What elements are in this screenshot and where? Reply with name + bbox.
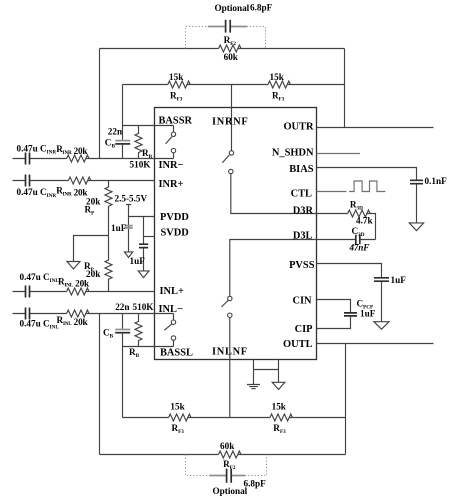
svg-text:510K: 510K [133,302,155,312]
resistor RINR 20k (INR+) [68,177,90,184]
svg-text:RF3: RF3 [170,91,183,103]
capacitor CB 22n (left ch) [115,329,130,331]
wire: left outer vertical (top wire to INR-) [99,49,101,159]
wire: INL- input line [13,313,174,315]
svg-text:INR+: INR+ [159,179,184,190]
wire: INRNF stub above IC [231,85,233,108]
wire: INR+ input line [13,180,155,182]
svg-text:1uF: 1uF [130,256,146,266]
wire: CIN/CIP loop [317,300,351,329]
wire: right vertical (top wire to OUTR) [344,49,346,128]
resistor RF3 15k (bottom right) [270,414,292,421]
svg-text:INLNF: INLNF [212,346,248,357]
capacitor CB 22n (right ch) [115,140,130,142]
resistor RF3 15k (bottom left) [169,414,191,421]
svg-text:1uF: 1uF [111,223,127,233]
svg-text:RF3: RF3 [272,91,285,103]
resistor R3D 4.7k [348,210,370,217]
svg-text:0.47u CINR: 0.47u CINR [17,187,57,199]
svg-text:47nF: 47nF [349,242,370,252]
capacitor CINL 0.47u (INL+) [26,286,30,298]
svg-text:BASSL: BASSL [160,347,193,358]
wire: vertical INL- through CB to BASSL and 15k wire [122,314,124,418]
svg-text:RINL 20k: RINL 20k [57,315,89,327]
optional capacitor 6.8pF (top, dashed) [186,27,266,49]
wire: D3R to R3D [317,214,376,240]
svg-text:1uF: 1uF [391,275,407,285]
wire: vertical from 15k wire through CB to INR- [122,85,124,159]
svg-text:D3R: D3R [293,206,314,217]
svg-text:6.8pF: 6.8pF [244,479,267,489]
ground (BIAS cap) [409,223,423,231]
resistor RINR 20k (INR-) [67,155,89,162]
ground (small, PVDD cap) [124,252,132,258]
ground (triangle, IC) [272,382,285,389]
wire: PVSS to cap [317,264,382,322]
svg-text:OUTR: OUTR [283,122,314,133]
svg-text:15k: 15k [169,72,184,82]
wire: INLNF stub below IC [229,360,231,418]
svg-text:60k: 60k [224,52,239,62]
svg-text:BIAS: BIAS [289,164,313,175]
svg-text:4.7k: 4.7k [356,216,373,226]
switch INRNF (inside IC) with wire to D3R [222,108,316,214]
svg-text:BASSR: BASSR [159,115,193,126]
wire: INR- input line [13,158,174,160]
resistor RP 20k (lower) [105,236,112,292]
svg-text:INR−: INR− [159,160,184,171]
ground (PVSS cap) [374,322,389,330]
svg-text:6.8pF: 6.8pF [250,3,273,13]
svg-text:22n: 22n [108,127,122,137]
ground (SVDD cap) [138,271,149,278]
svg-text:RF2: RF2 [224,35,237,47]
switch BASSR (inside IC) [166,126,174,159]
svg-text:20k: 20k [86,269,101,279]
optional capacitor 6.8pF (bottom, dashed) [186,455,267,476]
switch BASSL (inside IC) [164,314,173,347]
svg-text:Optional: Optional [213,486,248,496]
capacitor CINL 0.47u (INL-) [26,308,30,320]
svg-text:60k: 60k [220,441,235,451]
svg-text:INL−: INL− [159,304,183,315]
svg-text:22n: 22n [115,302,129,312]
wire: right vertical (OUTL to bottom wire) [345,344,347,455]
capacitor 1uF (SVDD bypass) [139,244,148,247]
ground (RP) [67,262,80,270]
svg-text:RINL 20k: RINL 20k [58,277,90,289]
capacitor CINR 0.47u (INR-) [26,153,30,165]
wire: OUTR output [317,127,434,129]
capacitor C3D 47nF [317,239,376,241]
svg-text:510K: 510K [130,160,152,170]
capacitor 0.1nF (BIAS) [410,180,423,183]
wire: BASSL pin wire [123,346,174,348]
svg-text:CIP: CIP [295,324,314,335]
resistor RINL 20k (INL-) [67,310,89,317]
capacitor CPCP 1uF [344,313,357,316]
svg-text:N_SHDN: N_SHDN [272,147,314,158]
capacitor CINR 0.47u (INR+) [26,175,30,187]
svg-text:RF2: RF2 [223,459,236,471]
wire: PVDD [129,216,155,218]
svg-text:RINR 20k: RINR 20k [56,144,88,156]
resistor RB 510K (right ch) [135,126,142,159]
svg-text:15k: 15k [272,402,287,412]
wire: OUTL output [317,343,434,345]
svg-text:RF3: RF3 [172,423,185,435]
svg-text:C3D: C3D [352,226,365,238]
wire: INL+ input line [13,291,155,293]
svg-text:0.47u CINL: 0.47u CINL [20,318,60,330]
svg-text:Optional: Optional [215,3,250,13]
capacitor 1uF (PVSS) [374,278,389,281]
svg-text:CB: CB [105,138,116,150]
svg-text:SVDD: SVDD [161,228,189,239]
wire: SVDD branch [143,217,145,271]
resistor RF2 60k (bottom) [219,451,241,458]
svg-text:PVDD: PVDD [160,212,189,223]
resistor RINL 20k (INL+) [67,288,89,295]
svg-text:OUTL: OUTL [283,339,313,350]
CTL square wave [349,181,385,192]
svg-text:INRNF: INRNF [212,117,248,128]
svg-text:CTL: CTL [291,188,312,199]
svg-text:2.5-5.5V: 2.5-5.5V [115,194,148,204]
svg-text:R3D: R3D [350,200,363,212]
svg-text:0.1nF: 0.1nF [425,176,448,186]
svg-text:1uF: 1uF [360,309,376,319]
resistor RB 510K (left ch) [135,314,142,347]
svg-text:D3L: D3L [293,231,313,242]
ground (bar type, IC) [247,385,260,389]
wire: bottom feedback wire (OUTL node to INL- node) [100,454,346,456]
svg-text:CB: CB [103,327,114,339]
svg-text:RF3: RF3 [273,423,286,435]
svg-text:0.47u CINL: 0.47u CINL [20,272,60,284]
resistor RF3 15k (top left) [168,81,190,88]
switch INLNF (inside IC) with wire to D3L [221,240,316,360]
capacitor 1uF (PVDD bypass, gray) [125,226,133,228]
wire: top feedback wire from OUTR node to INR- node [100,48,345,50]
svg-text:RB: RB [129,347,140,359]
wire: bottom 15k feedback wire [123,417,346,419]
resistor RF2 60k (top) [219,45,241,52]
svg-text:15k: 15k [170,402,185,412]
wire: BASSR pin wire [123,125,174,127]
wire: left outer vertical (INL- to bottom wire) [99,314,101,455]
svg-text:PVSS: PVSS [289,260,315,271]
wire: BIAS to 0.1nF cap [317,168,417,223]
svg-text:15k: 15k [270,72,285,82]
wire: IC ground stubs [254,360,279,385]
svg-text:INL+: INL+ [160,286,184,297]
wire: RP midpoint to ground [74,236,109,262]
resistor RP 20k (upper) [105,181,112,236]
wire: N_SHDN stub [317,153,360,155]
wire: 15k feedback wire [123,84,345,86]
svg-text:RINR 20k: RINR 20k [56,186,88,198]
wire: CTL stub [317,191,347,193]
svg-text:CIN: CIN [292,295,312,306]
IC U1 body [155,108,317,360]
svg-text:0.47u CINR: 0.47u CINR [17,143,57,155]
resistor RF3 15k (top right) [268,81,290,88]
